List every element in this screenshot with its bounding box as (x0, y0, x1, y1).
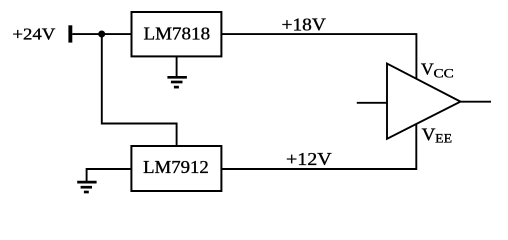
svg-text:EE: EE (435, 132, 452, 146)
op-amp output wire (461, 101, 492, 103)
svg-text:LM7912: LM7912 (143, 157, 209, 177)
label VCC (421, 60, 454, 81)
op-amp input wire (357, 102, 388, 104)
terminal +24V (68, 25, 72, 42)
svg-text:V: V (421, 60, 434, 79)
wire LM7818 output to op-amp VCC pin (221, 34, 416, 79)
op-amp U2 (387, 64, 461, 139)
svg-text:+24V: +24V (12, 24, 56, 43)
label VEE (422, 125, 453, 146)
svg-text:+18V: +18V (282, 14, 327, 34)
wire +24V terminal to LM7818 input (72, 33, 132, 35)
svg-text:CC: CC (434, 66, 454, 80)
wire LM7912 output to op-amp VEE pin (221, 124, 416, 169)
svg-text:LM7818: LM7818 (144, 23, 211, 43)
wire junction to LM7912 input (down, right, down) (102, 34, 177, 147)
junction node dot (98, 31, 105, 38)
wire LM7818 ground stem (176, 56, 178, 77)
svg-text:V: V (422, 125, 436, 145)
svg-text:+12V: +12V (286, 149, 332, 169)
regulator U3 LM7912 box (131, 146, 221, 191)
ground at LM7912 input (77, 182, 96, 192)
regulator U1 LM7818 box (132, 12, 222, 56)
ground under LM7818 (167, 77, 187, 87)
wire ground to LM7912 input (87, 169, 132, 181)
